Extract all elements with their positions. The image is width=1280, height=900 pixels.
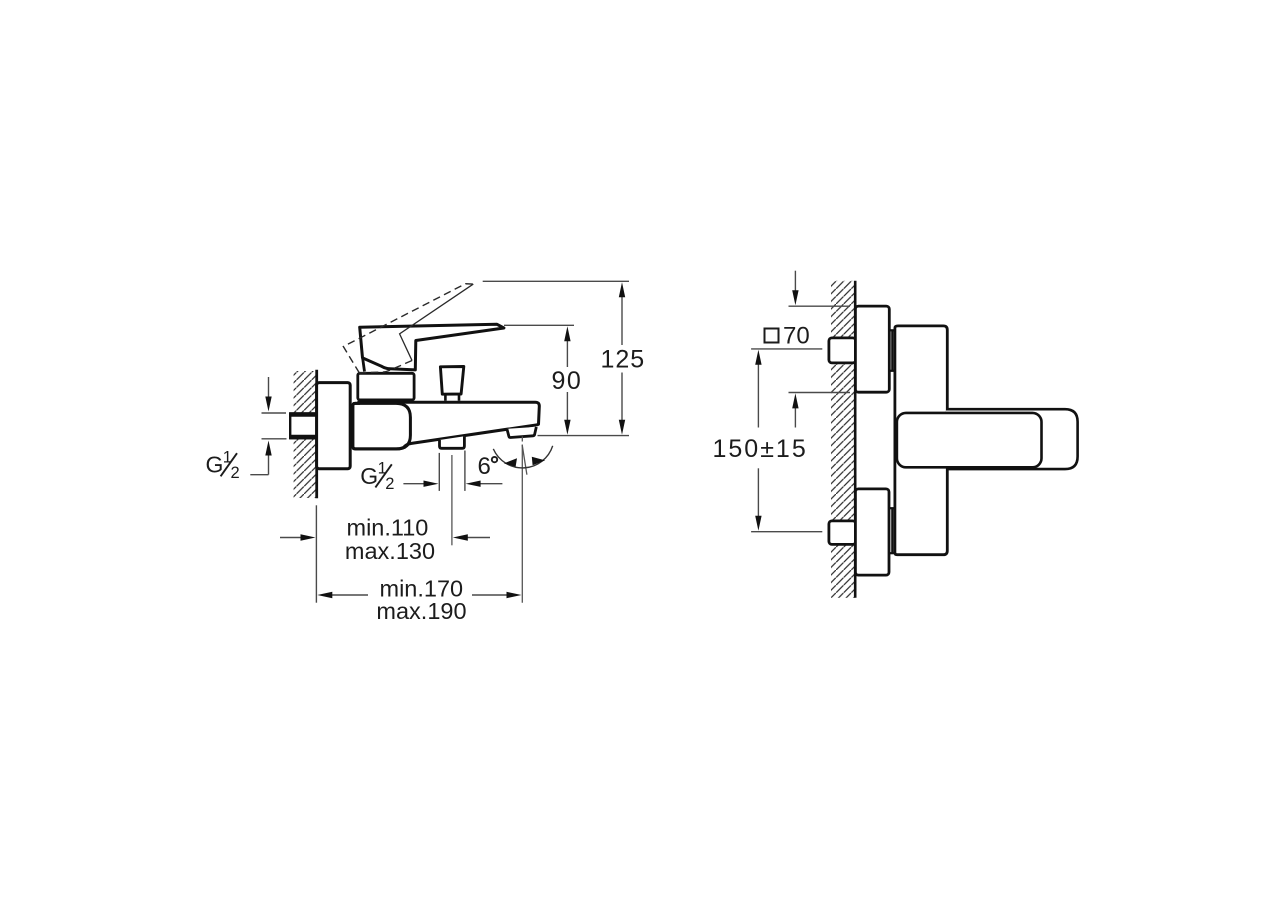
6 degree tilted centerline <box>522 445 527 475</box>
neck between top escutcheon and body <box>889 330 896 371</box>
dimension 90 <box>504 325 574 420</box>
svg-text:2: 2 <box>385 475 394 493</box>
wall face line (right view) <box>854 281 857 598</box>
diverter knob on top of body <box>440 367 463 401</box>
top escutcheon <box>855 306 889 392</box>
handle base <box>358 373 414 400</box>
svg-text:2: 2 <box>231 464 240 482</box>
dimension square 70 (escutcheon size) <box>789 271 851 428</box>
dimension min.170 / max.190 <box>332 594 508 596</box>
svg-text:max.190: max.190 <box>376 598 466 624</box>
dimension min.110 / max.130 <box>280 537 490 539</box>
bottom escutcheon <box>855 489 889 575</box>
lever handle raised position (dashed) <box>342 281 492 385</box>
threaded inlet pipe G1/2 <box>290 413 317 438</box>
dimension: shower outlet width G1/2 <box>403 451 502 491</box>
dimension 150 +/- 15 <box>751 349 822 532</box>
aerator (spout outlet) <box>507 427 536 438</box>
svg-text:max.130: max.130 <box>345 538 435 564</box>
label G1/2 (shower outlet) <box>360 459 394 493</box>
outlet centerline <box>451 455 453 545</box>
dimension: G1/2 wall pipe (left) <box>250 377 286 475</box>
svg-text:70: 70 <box>783 323 810 350</box>
label square 70 <box>765 329 779 343</box>
swivel arc with arrowheads <box>493 446 552 468</box>
top connection nut <box>829 338 856 363</box>
label G1/2 (wall pipe) <box>206 448 240 482</box>
svg-text:min.110: min.110 <box>347 515 429 541</box>
svg-text:125: 125 <box>601 345 646 373</box>
wall flange (escutcheon, side view) <box>317 383 351 469</box>
wall extension line below (min.170 reference) <box>315 505 317 602</box>
spout (top view, extends right) <box>946 409 1078 469</box>
wall face line (left view) <box>315 370 318 498</box>
handle (top view, overlapping) <box>897 413 1042 467</box>
svg-text:G: G <box>360 463 378 489</box>
mixer body (top view) <box>895 326 947 555</box>
svg-text:150±15: 150±15 <box>713 435 808 463</box>
rear body block outline (redrawn over spout) <box>353 403 411 449</box>
svg-text:6: 6 <box>478 453 491 480</box>
rear body block (connection block) <box>353 403 411 449</box>
lever handle (solid, horizontal position) <box>360 324 504 370</box>
svg-text:G: G <box>206 452 224 478</box>
shower hose outlet G1/2 (under body) <box>440 436 465 448</box>
aerator centerline <box>521 436 523 602</box>
spout body (side view) <box>357 402 539 447</box>
wall hatch (left view) <box>294 371 317 498</box>
neck between bottom escutcheon and body <box>889 508 896 553</box>
wall hatch (right view) <box>831 281 855 598</box>
dimension 125 <box>483 281 629 435</box>
svg-text:90: 90 <box>552 367 583 395</box>
handle rear corner tail <box>363 359 365 372</box>
bottom connection nut <box>829 521 856 545</box>
